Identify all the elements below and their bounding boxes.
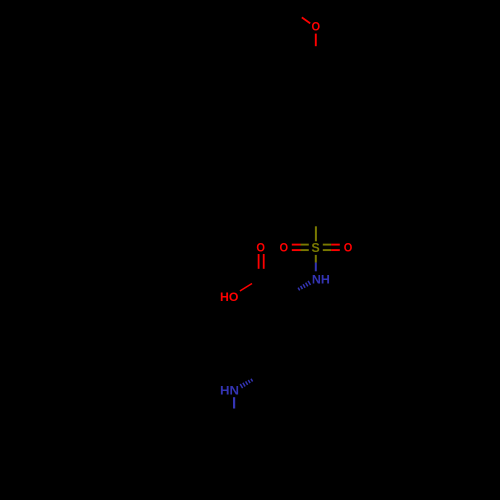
S=O left double bond top line <box>292 244 301 246</box>
methoxy methyl bond stub <box>302 17 310 23</box>
svg-text:HO: HO <box>220 290 238 304</box>
bond O to ring (red half) <box>315 34 317 47</box>
S=O right double bond top line <box>323 244 331 246</box>
svg-text:O: O <box>256 241 265 255</box>
hashed wedge N to stereocenter (blue half) <box>298 281 310 291</box>
svg-text:NH: NH <box>312 273 330 287</box>
S=O right double bond bottom line <box>323 249 331 251</box>
C=O double bond red halves <box>258 254 260 269</box>
hashed wedge HN to stereocenter (blue half) <box>240 379 252 388</box>
svg-text:O: O <box>344 241 353 255</box>
N-ring bond blue half <box>233 397 235 408</box>
svg-text:O: O <box>280 241 289 255</box>
svg-text:O: O <box>312 20 321 34</box>
S=O left double bond bottom line <box>292 249 301 251</box>
S-N bond blue half <box>315 263 317 272</box>
svg-text:S: S <box>311 240 320 255</box>
bond chain to S (olive half above S) <box>315 226 317 241</box>
HO-C bond red half <box>240 284 252 292</box>
svg-text:HN: HN <box>220 383 239 397</box>
S-N bond olive half <box>315 255 317 263</box>
